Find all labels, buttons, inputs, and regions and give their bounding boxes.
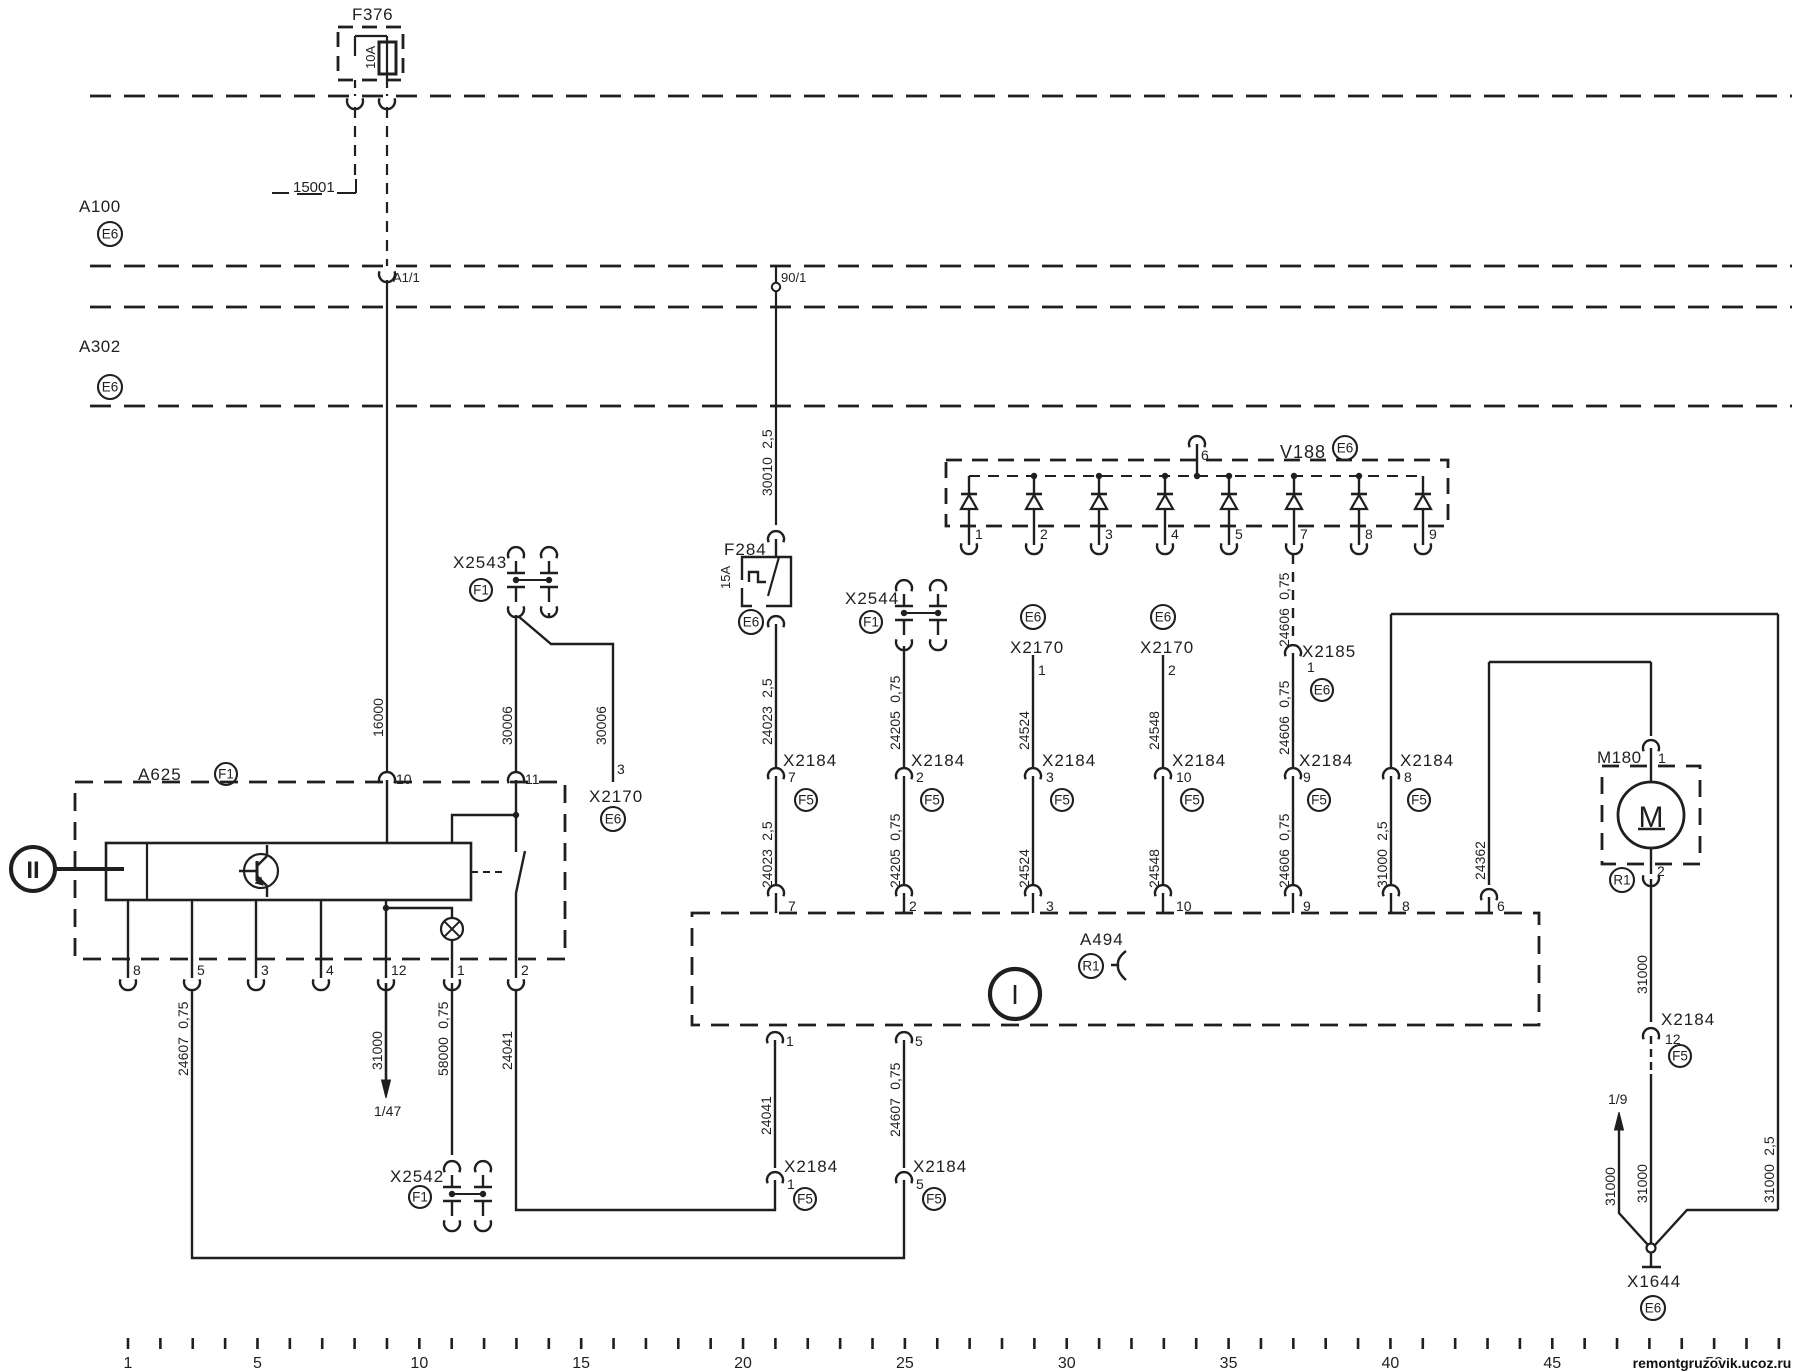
svg-text:0,75: 0,75: [175, 1001, 191, 1028]
svg-text:X2170: X2170: [1140, 638, 1194, 657]
svg-text:10A: 10A: [363, 46, 378, 69]
svg-text:1: 1: [787, 1176, 795, 1192]
svg-text:II: II: [26, 857, 39, 884]
svg-text:F1: F1: [218, 767, 234, 782]
svg-text:24606: 24606: [1276, 608, 1292, 647]
svg-text:1: 1: [1658, 750, 1666, 766]
svg-text:F5: F5: [798, 793, 814, 808]
svg-text:X2184: X2184: [913, 1157, 967, 1176]
svg-text:E6: E6: [1645, 1301, 1662, 1316]
svg-text:X2184: X2184: [1042, 751, 1096, 770]
svg-text:24023: 24023: [759, 706, 775, 745]
svg-text:A494: A494: [1080, 930, 1124, 949]
svg-text:E6: E6: [102, 380, 119, 395]
svg-text:9: 9: [1429, 526, 1437, 542]
svg-text:F5: F5: [924, 793, 940, 808]
svg-text:F1: F1: [473, 583, 489, 598]
svg-text:24606: 24606: [1276, 716, 1292, 755]
svg-text:0,75: 0,75: [1276, 680, 1292, 707]
svg-text:1/47: 1/47: [374, 1103, 401, 1119]
svg-text:A1/1: A1/1: [393, 270, 420, 285]
svg-text:M180: M180: [1597, 748, 1642, 767]
svg-text:X2184: X2184: [783, 751, 837, 770]
svg-text:24524: 24524: [1016, 849, 1032, 888]
svg-text:35: 35: [1220, 1355, 1238, 1372]
svg-text:10: 10: [1176, 769, 1192, 785]
svg-text:5: 5: [197, 962, 205, 978]
svg-text:5: 5: [253, 1355, 262, 1372]
svg-text:9: 9: [1303, 769, 1311, 785]
svg-text:1: 1: [786, 1033, 794, 1049]
svg-text:24205: 24205: [887, 711, 903, 750]
svg-text:24607: 24607: [175, 1037, 191, 1076]
svg-text:X2184: X2184: [1299, 751, 1353, 770]
svg-text:31000: 31000: [1761, 1164, 1777, 1203]
svg-text:1: 1: [457, 962, 465, 978]
svg-text:F5: F5: [926, 1192, 942, 1207]
svg-text:E6: E6: [102, 227, 119, 242]
svg-text:F5: F5: [1311, 793, 1327, 808]
svg-text:25: 25: [896, 1355, 914, 1372]
svg-text:X2170: X2170: [589, 787, 643, 806]
svg-text:11: 11: [525, 771, 540, 787]
svg-text:24023: 24023: [759, 849, 775, 888]
svg-text:X2184: X2184: [1400, 751, 1454, 770]
svg-text:F5: F5: [1054, 793, 1070, 808]
svg-text:X2170: X2170: [1010, 638, 1064, 657]
svg-text:E6: E6: [605, 812, 622, 827]
svg-text:40: 40: [1382, 1355, 1400, 1372]
svg-text:31000: 31000: [1374, 849, 1390, 888]
svg-text:X2184: X2184: [1172, 751, 1226, 770]
svg-text:F5: F5: [797, 1192, 813, 1207]
svg-text:5: 5: [915, 1033, 923, 1049]
svg-text:A302: A302: [79, 337, 121, 356]
svg-text:24205: 24205: [887, 849, 903, 888]
svg-text:3: 3: [1105, 526, 1113, 542]
svg-text:24041: 24041: [499, 1031, 515, 1070]
svg-text:remontgruzovik.ucoz.ru: remontgruzovik.ucoz.ru: [1633, 1355, 1792, 1371]
svg-text:1: 1: [1307, 659, 1315, 675]
svg-text:X1644: X1644: [1627, 1272, 1681, 1291]
svg-text:0,75: 0,75: [1276, 572, 1292, 599]
svg-text:30006: 30006: [593, 706, 609, 745]
svg-text:E6: E6: [1155, 610, 1172, 625]
svg-text:30: 30: [1058, 1355, 1076, 1372]
svg-text:24041: 24041: [758, 1096, 774, 1135]
svg-text:30010: 30010: [759, 457, 775, 496]
svg-text:2,5: 2,5: [759, 821, 775, 841]
svg-text:A625: A625: [138, 765, 182, 784]
svg-text:2: 2: [916, 769, 924, 785]
svg-text:15: 15: [572, 1355, 590, 1372]
svg-text:X2184: X2184: [1661, 1010, 1715, 1029]
svg-text:0,75: 0,75: [887, 675, 903, 702]
svg-text:30006: 30006: [499, 706, 515, 745]
svg-text:2: 2: [521, 962, 529, 978]
svg-text:10: 10: [396, 771, 412, 787]
svg-text:24524: 24524: [1016, 711, 1032, 750]
svg-text:2,5: 2,5: [1374, 821, 1390, 841]
svg-text:X2544: X2544: [845, 589, 899, 608]
svg-text:1: 1: [124, 1355, 133, 1372]
svg-text:0,75: 0,75: [887, 813, 903, 840]
svg-text:0,75: 0,75: [1276, 813, 1292, 840]
svg-text:90/1: 90/1: [781, 270, 806, 285]
svg-text:2: 2: [1168, 662, 1176, 678]
svg-text:X2543: X2543: [453, 553, 507, 572]
svg-text:15A: 15A: [718, 566, 733, 589]
svg-text:I: I: [1011, 979, 1019, 1010]
svg-text:5: 5: [916, 1176, 924, 1192]
svg-text:45: 45: [1543, 1355, 1561, 1372]
svg-text:R1: R1: [1613, 873, 1630, 888]
svg-text:3: 3: [261, 962, 269, 978]
svg-text:2: 2: [1040, 526, 1048, 542]
svg-text:4: 4: [326, 962, 334, 978]
svg-text:E6: E6: [1337, 441, 1354, 456]
svg-text:31000: 31000: [1634, 1164, 1650, 1203]
svg-text:24362: 24362: [1472, 841, 1488, 880]
svg-text:E6: E6: [1025, 610, 1042, 625]
svg-text:7: 7: [788, 769, 796, 785]
svg-text:24548: 24548: [1146, 849, 1162, 888]
svg-text:2,5: 2,5: [1761, 1136, 1777, 1156]
svg-text:F5: F5: [1184, 793, 1200, 808]
svg-text:0,75: 0,75: [435, 1001, 451, 1028]
svg-text:1: 1: [975, 526, 983, 542]
svg-text:8: 8: [133, 962, 141, 978]
svg-text:A100: A100: [79, 197, 121, 216]
svg-text:X2184: X2184: [784, 1157, 838, 1176]
svg-text:20: 20: [734, 1355, 752, 1372]
svg-text:16000: 16000: [370, 698, 386, 737]
svg-text:E6: E6: [743, 615, 760, 630]
svg-text:F5: F5: [1411, 793, 1427, 808]
svg-text:24606: 24606: [1276, 849, 1292, 888]
svg-text:3: 3: [1046, 769, 1054, 785]
svg-text:1: 1: [1038, 662, 1046, 678]
svg-text:12: 12: [391, 962, 407, 978]
svg-text:8: 8: [1404, 769, 1412, 785]
svg-text:24607: 24607: [887, 1098, 903, 1137]
svg-text:6: 6: [1497, 898, 1505, 914]
svg-text:7: 7: [1300, 526, 1308, 542]
svg-text:F5: F5: [1672, 1049, 1688, 1064]
svg-text:2,5: 2,5: [759, 429, 775, 449]
svg-text:31000: 31000: [1634, 955, 1650, 994]
svg-text:24548: 24548: [1146, 711, 1162, 750]
svg-text:8: 8: [1365, 526, 1373, 542]
svg-text:X2542: X2542: [390, 1167, 444, 1186]
svg-text:3: 3: [617, 761, 625, 777]
svg-text:4: 4: [1171, 526, 1179, 542]
svg-text:31000: 31000: [1602, 1167, 1618, 1206]
svg-text:R1: R1: [1082, 959, 1099, 974]
svg-text:0,75: 0,75: [887, 1062, 903, 1089]
svg-text:6: 6: [1201, 447, 1209, 463]
svg-text:5: 5: [1235, 526, 1243, 542]
svg-text:F1: F1: [863, 615, 879, 630]
svg-text:E6: E6: [1314, 683, 1331, 698]
svg-text:F1: F1: [412, 1190, 428, 1205]
svg-text:F376: F376: [352, 5, 393, 24]
svg-text:1/9: 1/9: [1608, 1091, 1628, 1107]
svg-text:58000: 58000: [435, 1037, 451, 1076]
svg-text:X2184: X2184: [911, 751, 965, 770]
svg-text:10: 10: [410, 1355, 428, 1372]
svg-text:31000: 31000: [369, 1031, 385, 1070]
svg-text:2,5: 2,5: [759, 678, 775, 698]
